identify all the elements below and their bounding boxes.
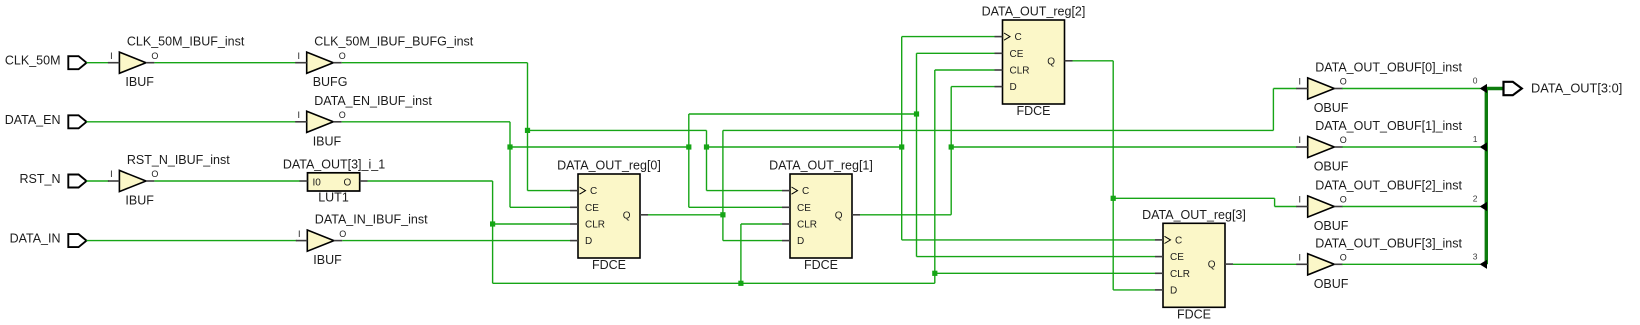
svg-text:OBUF: OBUF <box>1314 160 1349 174</box>
svg-text:I: I <box>1298 253 1301 263</box>
svg-text:C: C <box>590 186 597 197</box>
svg-text:DATA_OUT_reg[0]: DATA_OUT_reg[0] <box>557 159 661 173</box>
svg-text:CLK_50M: CLK_50M <box>5 54 61 68</box>
wire clr net LUT1 out east <box>368 180 493 182</box>
svg-text:I: I <box>297 51 300 61</box>
svg-text:DATA_OUT_OBUF[2]_inst: DATA_OUT_OBUF[2]_inst <box>1315 179 1462 193</box>
wire OBUF0 out to bus <box>1342 88 1480 90</box>
bus DATA_OUT vertical <box>1485 89 1488 265</box>
input port RST_N <box>20 172 87 188</box>
wire q2 into reg3 D <box>1113 289 1155 291</box>
node ce junction (916,114) <box>914 111 919 116</box>
wire q0 into OBUF0 <box>1273 88 1296 90</box>
svg-text:O: O <box>1340 195 1347 205</box>
wire q0 from reg0 Q <box>648 214 723 216</box>
svg-text:DATA_OUT_OBUF[3]_inst: DATA_OUT_OBUF[3]_inst <box>1315 236 1462 250</box>
svg-text:DATA_OUT_reg[1]: DATA_OUT_reg[1] <box>769 159 873 173</box>
buffer DATA_EN_IBUF_inst (IBUF) <box>295 94 432 149</box>
svg-text:FDCE: FDCE <box>1016 104 1050 118</box>
flip-flop DATA_OUT_reg[1] (FDCE) <box>769 159 873 273</box>
svg-text:O: O <box>339 51 346 61</box>
wire ce into reg2 CE <box>917 52 995 54</box>
svg-text:O: O <box>344 178 352 189</box>
svg-text:RST_N: RST_N <box>20 172 61 186</box>
wire q1 vertical x951 <box>950 87 952 215</box>
svg-text:CLK_50M_IBUF_BUFG_inst: CLK_50M_IBUF_BUFG_inst <box>314 35 474 49</box>
svg-text:2: 2 <box>1473 194 1478 204</box>
input port DATA_IN <box>10 232 87 248</box>
svg-text:O: O <box>151 51 158 61</box>
svg-text:I: I <box>110 51 113 61</box>
wire q2 vertical x1274 <box>1274 198 1276 206</box>
wire RST_N_IBUF out to LUT1 <box>154 180 300 182</box>
wire q1 from reg1 Q <box>860 214 951 216</box>
svg-text:O: O <box>339 229 346 239</box>
svg-text:C: C <box>1015 32 1022 43</box>
wire q2 horizontal y198 <box>1113 197 1274 199</box>
svg-text:Q: Q <box>1047 56 1055 67</box>
node q1 junction (951,147) <box>949 144 954 149</box>
svg-text:BUFG: BUFG <box>313 75 348 89</box>
wire clk vertical x706 <box>706 130 708 190</box>
wire ce into reg0 CE <box>510 206 570 208</box>
wire q0 horizontal y130 <box>723 129 1274 131</box>
svg-text:DATA_OUT[3:0]: DATA_OUT[3:0] <box>1531 80 1622 95</box>
svg-text:O: O <box>339 110 346 120</box>
svg-text:3: 3 <box>1473 251 1478 261</box>
wire clk into reg3 C <box>902 239 1155 241</box>
wire clr into reg0 CLR <box>493 223 570 225</box>
wire RST_N port to IBUF <box>87 180 110 182</box>
wire clr into reg3 CLR <box>935 272 1155 274</box>
wire q1 horizontal y147 to OBUF1 <box>951 146 1296 148</box>
svg-text:1: 1 <box>1473 134 1478 144</box>
wire q2 into OBUF2 <box>1275 206 1297 208</box>
svg-text:CLR: CLR <box>1010 66 1030 77</box>
wire ce vertical x916 <box>916 53 918 256</box>
svg-text:Q: Q <box>835 210 843 221</box>
wire DATA_EN port to IBUF <box>87 121 297 123</box>
bus tap arrow bit 1 <box>1473 134 1487 152</box>
svg-text:I: I <box>110 169 113 179</box>
svg-text:Q: Q <box>623 210 631 221</box>
wire OBUF2 out to bus <box>1342 206 1480 208</box>
wire q0 vertical x1273 <box>1272 89 1274 131</box>
svg-text:C: C <box>1175 235 1182 246</box>
wire DATA_IN port to IBUF <box>87 240 298 242</box>
buffer DATA_OUT_OBUF[1]_inst (OBUF) <box>1296 119 1462 174</box>
svg-text:D: D <box>1170 285 1177 296</box>
wire clr vertical x934 <box>934 70 936 283</box>
svg-text:I: I <box>297 110 300 120</box>
wire ce vertical x688 <box>688 114 690 207</box>
node clk junction (901,147) <box>899 144 904 149</box>
svg-text:IBUF: IBUF <box>313 253 342 267</box>
node clr junction (740,283) <box>738 281 743 286</box>
wire ce into reg3 CE <box>917 256 1156 258</box>
flip-flop DATA_OUT_reg[3] (FDCE) <box>1142 208 1246 321</box>
wire clr vertical x492 <box>492 181 494 283</box>
svg-text:DATA_OUT_OBUF[0]_inst: DATA_OUT_OBUF[0]_inst <box>1315 61 1462 75</box>
wire clr horizontal y283 <box>493 282 935 284</box>
LUT DATA_OUT[3]_i_1 (LUT1) <box>283 158 385 205</box>
wire OBUF1 out to bus <box>1342 146 1480 148</box>
wire clr vertical x740 <box>740 224 742 283</box>
node clr junction (492,224) <box>490 221 495 226</box>
wire CLK_50M port to IBUF <box>87 62 110 64</box>
svg-text:IBUF: IBUF <box>313 134 342 148</box>
node ce junction (510,147) <box>507 144 512 149</box>
wire clk horizontal y130 <box>528 129 707 131</box>
svg-text:DATA_EN_IBUF_inst: DATA_EN_IBUF_inst <box>314 94 432 108</box>
svg-text:FDCE: FDCE <box>592 258 626 272</box>
node clk junction (706,147) <box>704 144 709 149</box>
wire q0 vertical x722 <box>722 130 724 240</box>
wire ce vertical x510 <box>509 122 511 208</box>
wire q2 from reg2 Q <box>1073 60 1114 62</box>
svg-text:D: D <box>1010 82 1017 93</box>
input port CLK_50M <box>5 54 87 70</box>
node ce junction (688,147) <box>686 144 691 149</box>
wire clk net BUFG out east <box>342 62 528 64</box>
node clr junction (934,273) <box>932 271 937 276</box>
svg-text:I: I <box>1298 195 1301 205</box>
svg-text:O: O <box>1340 253 1347 263</box>
svg-text:DATA_OUT_reg[3]: DATA_OUT_reg[3] <box>1142 208 1246 222</box>
svg-text:DATA_IN_IBUF_inst: DATA_IN_IBUF_inst <box>315 213 428 227</box>
svg-text:O: O <box>1340 135 1347 145</box>
svg-text:DATA_OUT[3]_i_1: DATA_OUT[3]_i_1 <box>283 158 385 172</box>
svg-text:CE: CE <box>797 203 811 214</box>
wire DATA_IN_IBUF out to reg0 D <box>342 240 570 242</box>
buffer DATA_OUT_OBUF[2]_inst (OBUF) <box>1296 179 1462 234</box>
svg-text:OBUF: OBUF <box>1314 277 1349 291</box>
wire q3 from reg3 Q to OBUF3 <box>1233 263 1297 265</box>
svg-text:FDCE: FDCE <box>1177 307 1211 321</box>
svg-text:CE: CE <box>585 203 599 214</box>
wire clr into reg1 CLR <box>741 223 782 225</box>
buffer DATA_OUT_OBUF[3]_inst (OBUF) <box>1296 236 1462 290</box>
buffer DATA_IN_IBUF_inst (IBUF) <box>296 213 428 268</box>
output port DATA_OUT[3:0] <box>1504 80 1623 95</box>
bus tap arrow bit 3 <box>1473 251 1487 269</box>
wire ce horizontal y114 <box>689 113 917 115</box>
input port DATA_EN <box>5 113 87 129</box>
wire q0 into reg1 D <box>723 240 782 242</box>
wire clk into reg2 C <box>902 36 995 38</box>
svg-text:I0: I0 <box>313 178 322 189</box>
svg-text:LUT1: LUT1 <box>318 191 349 205</box>
wire ce horizontal y147 <box>510 146 689 148</box>
wire q1 into reg2 D <box>951 86 994 88</box>
node q2 junction (1113,198) <box>1111 196 1116 201</box>
buffer CLK_50M_IBUF_inst (IBUF) <box>108 35 245 89</box>
svg-text:CE: CE <box>1170 252 1184 263</box>
wire clk into reg1 C <box>707 190 783 192</box>
buffer RST_N_IBUF_inst (IBUF) <box>108 153 230 208</box>
wire q2 vertical x1113 <box>1112 61 1114 290</box>
svg-text:DATA_IN: DATA_IN <box>10 232 61 246</box>
svg-text:CLR: CLR <box>797 220 817 231</box>
svg-text:D: D <box>797 236 804 247</box>
svg-text:O: O <box>1340 77 1347 87</box>
svg-text:CE: CE <box>1010 49 1024 60</box>
flip-flop DATA_OUT_reg[2] (FDCE) <box>982 5 1086 119</box>
svg-text:I: I <box>1298 135 1301 145</box>
svg-text:FDCE: FDCE <box>804 258 838 272</box>
wire ce into reg1 CE <box>689 206 782 208</box>
svg-text:Q: Q <box>1208 260 1216 271</box>
svg-text:RST_N_IBUF_inst: RST_N_IBUF_inst <box>127 153 230 167</box>
node q0 junction (722,215) <box>720 212 725 217</box>
wire clk into reg0 C <box>528 190 571 192</box>
bus tap arrow bit 0 <box>1473 76 1487 94</box>
wire clk vertical x901 <box>901 37 903 240</box>
svg-text:OBUF: OBUF <box>1314 101 1349 115</box>
wire OBUF3 out to bus <box>1342 263 1480 265</box>
svg-text:IBUF: IBUF <box>125 194 154 208</box>
svg-text:C: C <box>802 186 809 197</box>
svg-text:O: O <box>151 169 158 179</box>
svg-text:0: 0 <box>1473 76 1478 86</box>
svg-text:D: D <box>585 236 592 247</box>
svg-text:I: I <box>298 229 301 239</box>
bus tap arrow bit 2 <box>1473 194 1487 212</box>
wire ce net IBUF out east <box>342 121 510 123</box>
wire clr into reg2 CLR <box>935 69 995 71</box>
buffer DATA_OUT_OBUF[0]_inst (OBUF) <box>1296 61 1462 116</box>
svg-text:DATA_EN: DATA_EN <box>5 113 61 127</box>
svg-text:DATA_OUT_reg[2]: DATA_OUT_reg[2] <box>982 5 1086 19</box>
svg-text:I: I <box>1298 77 1301 87</box>
wire clk horizontal y147 <box>707 146 902 148</box>
bus wire to output port <box>1485 87 1504 90</box>
wire CLK_50M_IBUF out to BUFG <box>154 62 296 64</box>
svg-text:OBUF: OBUF <box>1314 219 1349 233</box>
flip-flop DATA_OUT_reg[0] (FDCE) <box>557 159 661 273</box>
wire clk vertical x527 <box>527 63 529 191</box>
svg-text:CLR: CLR <box>585 220 605 231</box>
svg-text:CLR: CLR <box>1170 269 1190 280</box>
buffer CLK_50M_IBUF_BUFG_inst (BUFG) <box>295 35 474 89</box>
svg-text:CLK_50M_IBUF_inst: CLK_50M_IBUF_inst <box>127 35 245 49</box>
node clk junction (527,130) <box>525 128 530 133</box>
svg-text:DATA_OUT_OBUF[1]_inst: DATA_OUT_OBUF[1]_inst <box>1315 119 1462 133</box>
svg-text:IBUF: IBUF <box>125 75 154 89</box>
